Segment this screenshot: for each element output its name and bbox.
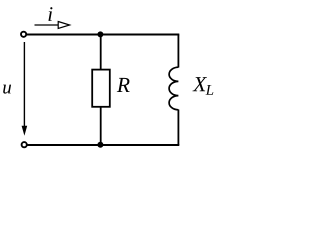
wire right vertical upper — [177, 35, 179, 68]
label X — [192, 77, 207, 91]
junction bottom node — [97, 142, 103, 148]
label i — [48, 7, 52, 21]
label L — [206, 85, 214, 95]
wire bottom horizontal — [28, 144, 180, 146]
terminal top left — [21, 32, 26, 37]
wire right vertical lower — [177, 110, 179, 146]
inductor XL coil — [169, 67, 178, 110]
wire top horizontal — [27, 34, 180, 36]
wire middle branch upper — [100, 35, 102, 71]
junction top node — [97, 31, 103, 37]
terminal bottom left — [22, 142, 27, 147]
wire middle branch lower — [100, 107, 102, 145]
current arrow i — [35, 24, 60, 26]
resistor R body — [92, 70, 110, 107]
voltage arrow u — [23, 42, 25, 130]
label R — [117, 78, 130, 92]
label u — [3, 85, 11, 94]
